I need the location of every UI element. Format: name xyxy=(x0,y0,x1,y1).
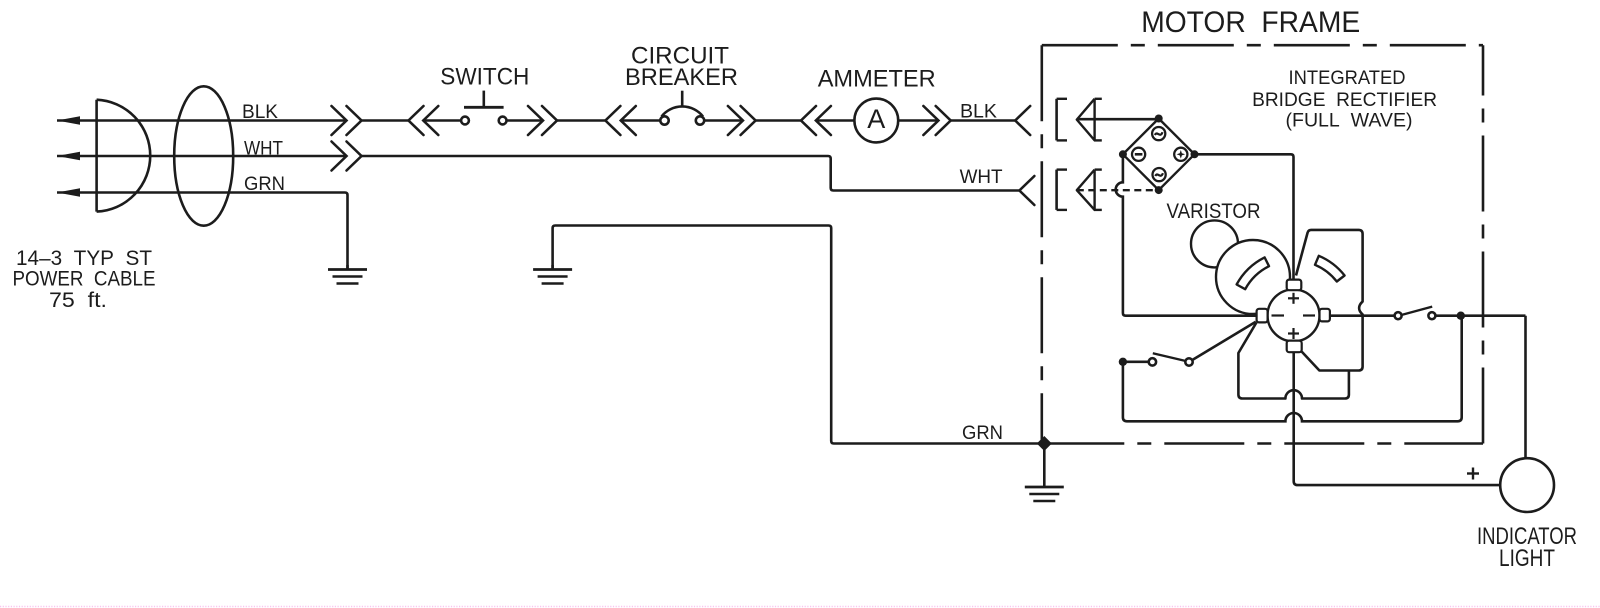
svg-text:GRN: GRN xyxy=(244,174,285,195)
svg-text:WHT: WHT xyxy=(244,139,283,160)
svg-text:VARISTOR: VARISTOR xyxy=(1167,200,1261,223)
svg-text:BRIDGE RECTIFIER: BRIDGE RECTIFIER xyxy=(1252,89,1437,111)
svg-text:GRN: GRN xyxy=(962,423,1003,444)
svg-text:POWER CABLE: POWER CABLE xyxy=(13,268,156,291)
svg-text:WHT: WHT xyxy=(960,167,1003,188)
svg-text:BLK: BLK xyxy=(242,102,278,123)
svg-text:14–3 TYP ST: 14–3 TYP ST xyxy=(16,247,152,270)
svg-text:BREAKER: BREAKER xyxy=(625,64,738,91)
svg-text:SWITCH: SWITCH xyxy=(440,64,529,91)
svg-text:A: A xyxy=(867,104,885,134)
svg-text:AMMETER: AMMETER xyxy=(818,65,936,92)
svg-text:(FULL WAVE): (FULL WAVE) xyxy=(1286,110,1413,132)
svg-text:LIGHT: LIGHT xyxy=(1499,545,1555,572)
svg-text:INTEGRATED: INTEGRATED xyxy=(1289,67,1406,89)
svg-text:BLK: BLK xyxy=(960,102,997,123)
svg-text:MOTOR FRAME: MOTOR FRAME xyxy=(1141,6,1360,39)
svg-text:75 ft.: 75 ft. xyxy=(49,289,107,312)
